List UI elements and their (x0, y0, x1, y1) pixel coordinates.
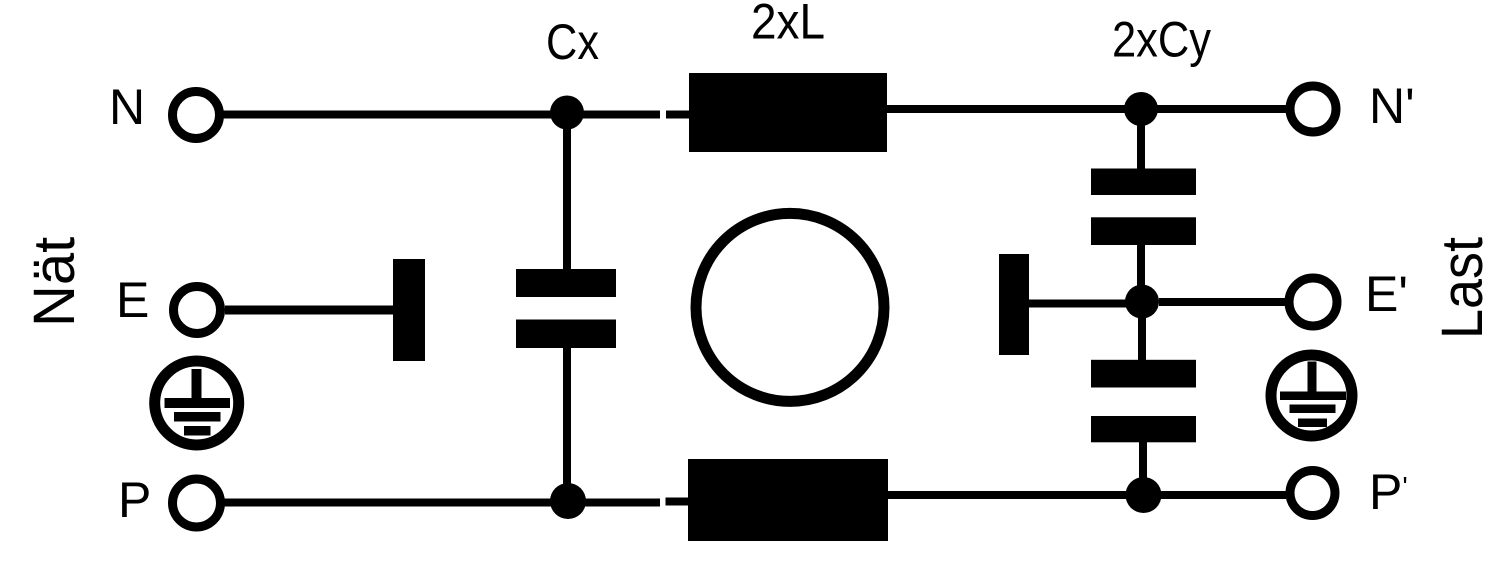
wire Cx to node B (563, 348, 571, 501)
svg-text:2xL: 2xL (751, 0, 825, 50)
wire chassis bar to node D (1029, 300, 1129, 308)
svg-text:Last: Last (1430, 237, 1495, 339)
chassis bar right (999, 254, 1029, 355)
svg-text:Nät: Nät (22, 237, 87, 327)
wire node D to E' (1159, 298, 1285, 306)
terminal E (174, 287, 221, 334)
choke core circle (696, 213, 884, 401)
node C (top junction of Cy chain) (1124, 92, 1158, 126)
svg-text:E': E' (1365, 266, 1408, 322)
svg-text:E: E (116, 272, 149, 328)
node A (top junction of Cx) (550, 96, 584, 130)
terminal P (173, 479, 221, 527)
svg-text:2xCy: 2xCy (1112, 12, 1211, 68)
terminal N' (1290, 86, 1336, 132)
wire node A down to Cx (563, 112, 571, 269)
node D (earth junction E') (1125, 285, 1159, 319)
capacitor Cy1 top plate (1091, 169, 1196, 196)
wire L1 to node C and N' (887, 105, 1286, 113)
wire Cy2 to node E (1139, 442, 1147, 494)
wire node A to inductor L1 (segment after scan gap) (666, 111, 689, 119)
wire node D down to Cy2 (1138, 318, 1146, 360)
protective earth symbol left (155, 361, 239, 445)
wire P to node B (segment before scan gap) (224, 499, 660, 507)
capacitor Cy1 bottom plate (1091, 217, 1196, 245)
svg-text:N: N (109, 79, 145, 135)
wire Cy1 to node D (1137, 245, 1145, 302)
capacitor Cy2 bottom plate (1091, 416, 1196, 442)
node B (bottom junction of Cx) (550, 483, 586, 519)
terminal N (173, 92, 220, 139)
wire N to node A (segment before scan gap) (223, 111, 660, 119)
svg-text:P': P' (1369, 464, 1408, 520)
capacitor Cy2 top plate (1091, 360, 1196, 388)
capacitor Cx bottom plate (516, 320, 616, 349)
svg-text:N': N' (1369, 78, 1415, 134)
svg-text:P: P (118, 472, 151, 528)
wire node C down to Cy1 (1137, 109, 1145, 169)
terminal E' (1289, 278, 1337, 326)
protective earth symbol right (1271, 355, 1352, 436)
chassis bar left (393, 259, 425, 361)
terminal P' (1290, 471, 1335, 516)
inductor L2 bottom winding of 2xL (688, 459, 888, 541)
wire E to chassis bar left (225, 306, 393, 315)
node E (bottom junction of Cy chain) (1126, 477, 1162, 513)
wire L2 to node E and P' (888, 491, 1286, 499)
inductor L1 top winding of 2xL (689, 73, 887, 152)
wire node B to inductor L2 (segment after scan gap) (666, 498, 689, 506)
capacitor Cx top plate (516, 269, 616, 297)
svg-text:Cx: Cx (546, 14, 599, 70)
